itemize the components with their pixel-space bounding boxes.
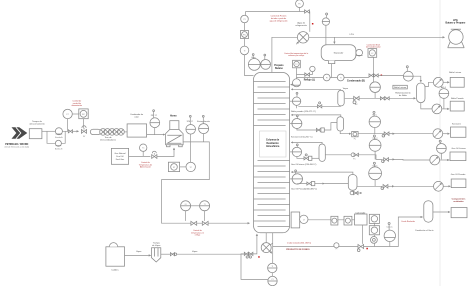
instrument square LC — [368, 49, 377, 58]
gauge liquido on column head — [261, 60, 271, 70]
wire instrument stack verticals — [245, 12, 254, 76]
condenser exchanger — [296, 32, 309, 45]
svg-text:Kerosene: Kerosene — [452, 123, 462, 126]
wire condensate from separator — [297, 64, 369, 78]
valve reflux — [305, 73, 310, 76]
gauge vaporizacion — [199, 124, 209, 134]
tank Tanque de almacenamiento — [29, 129, 42, 139]
instrument square bottom 2 — [344, 216, 352, 225]
tiny circle above gauge vapor — [252, 54, 254, 59]
tiny circle above separator TI — [326, 13, 328, 18]
svg-text:Horno: Horno — [170, 115, 177, 117]
valve row R2 right — [382, 132, 394, 137]
instrument square bottom 1 — [331, 216, 338, 225]
instrument square FIC — [79, 109, 88, 119]
stripper R2 vessel — [337, 117, 344, 131]
wire TT transfer stem — [204, 211, 206, 221]
wire steam line to column — [177, 253, 244, 255]
wire gauge 292 stem — [154, 128, 156, 135]
tiny circle above 370C — [189, 115, 191, 124]
svg-text:Fuel Oil: Fuel Oil — [116, 156, 124, 158]
furnace Horno — [166, 121, 184, 147]
wire R4 drum to valve — [297, 183, 307, 186]
valve transfer 1 — [191, 221, 197, 225]
gauge dome on splitter feed — [403, 71, 413, 81]
exchanger gasoil liviano — [430, 155, 440, 165]
tiny circle above R3 drum — [296, 144, 298, 147]
wire FT transfer stem — [185, 211, 187, 221]
box nafta pesada — [450, 101, 464, 111]
svg-text:PRODUCTO DE FONDO: PRODUCTO DE FONDO — [286, 249, 310, 251]
svg-text:de Vapor: de Vapor — [152, 244, 161, 247]
svg-text:calor: calor — [134, 116, 139, 119]
drum cabeza naphtha — [370, 82, 381, 93]
instrument circle LT bottom — [300, 215, 308, 223]
svg-text:columna por reflujo: columna por reflujo — [288, 54, 304, 57]
wire R3 drum to valve — [297, 157, 304, 159]
tiny circle above gasoil gauge — [439, 140, 441, 143]
valve row R4 feed — [307, 182, 315, 186]
tiny circle above splitter feed gauge — [406, 66, 408, 72]
wire drum to naphtha line — [374, 93, 376, 99]
svg-text:AR-1: AR-1 — [441, 86, 447, 89]
pumparound drum R3 — [292, 147, 301, 156]
svg-text:Gas Oil Pesado: Gas Oil Pesado — [451, 174, 466, 176]
valve row R4 right — [381, 185, 394, 190]
exchanger nafta liviana — [433, 77, 443, 87]
valve steam pair — [244, 252, 253, 258]
wire steam bypass loop — [241, 254, 268, 280]
wire cooling water drop — [309, 12, 311, 32]
box calculador — [355, 214, 368, 225]
svg-text:T150°C: T150°C — [372, 138, 379, 140]
instrument square stack right 2 — [369, 226, 379, 235]
red dot cooling — [312, 23, 314, 25]
wire cambiador to horno — [147, 134, 165, 136]
valve cluster condensate cross — [369, 74, 378, 77]
svg-text:Butano: Butano — [275, 67, 284, 70]
svg-text:Butano y Propano: Butano y Propano — [446, 22, 466, 25]
pump reflux — [293, 79, 301, 87]
drum before vacuum — [384, 230, 395, 241]
wire transfer line furnace to column feed — [162, 142, 250, 223]
wire top pressure line — [246, 11, 310, 13]
wire loop to pump B — [47, 131, 55, 143]
separator bottom nub — [329, 61, 335, 64]
wire column bottom left nozzle — [265, 233, 267, 243]
wire bottoms product line — [273, 246, 358, 248]
instrument circle TC fuel — [140, 144, 147, 151]
tiny circle above 292C — [153, 110, 155, 118]
valve row R3 right — [382, 158, 395, 163]
wire caldera to trampa — [125, 254, 151, 256]
tiny circle above gauge R3 — [373, 135, 375, 139]
instrument square TC reflux — [293, 60, 301, 68]
wire R2 drum to valve — [297, 129, 317, 131]
wire between bottoms instruments — [271, 273, 273, 277]
svg-text:agua de refrigeración: agua de refrigeración — [270, 20, 288, 23]
svg-text:Gas Oil liviano (250-300°C): Gas Oil liviano (250-300°C) — [291, 164, 317, 166]
svg-text:Cambiador de: Cambiador de — [130, 113, 144, 116]
svg-text:Vapor: Vapor — [251, 57, 256, 59]
tiny circle above R1 drum — [296, 92, 298, 97]
wire reflux controls — [297, 68, 313, 79]
wire LC to cluster — [373, 57, 375, 74]
wire vacuum to residuals box — [433, 211, 450, 213]
wire to kerosene box — [443, 133, 450, 135]
wire condenser to separator — [309, 37, 335, 43]
pumparound drum R2 — [292, 119, 302, 129]
heat exchanger train circles — [100, 129, 125, 136]
svg-text:Agua de: Agua de — [297, 21, 306, 24]
wire feed gauge to splitter top — [413, 76, 421, 82]
valve transfer 2 — [202, 221, 208, 225]
svg-text:Vapor: Vapor — [136, 250, 142, 253]
wire gauge R4 stem — [374, 180, 376, 187]
instrument circle stack right 3 — [371, 237, 378, 244]
wire fuel line — [129, 155, 151, 157]
exchanger nafta pesada — [432, 104, 442, 114]
exchanger gasoil pesado — [434, 181, 444, 191]
wire bottom instrument row — [308, 219, 355, 221]
wire naphtha line — [345, 97, 416, 99]
pump separator boot — [356, 49, 363, 56]
wire PC stem — [299, 8, 301, 12]
valve gasoil pesado draw — [350, 191, 362, 195]
instrument circle FT transfer — [181, 201, 191, 211]
tiny circle above R4 drum — [295, 170, 297, 174]
svg-text:Bomba A: Bomba A — [55, 136, 63, 139]
instrument stack circle PI — [241, 15, 249, 23]
instrument circle FT — [63, 109, 72, 118]
exchanger kerosene — [433, 129, 443, 139]
wire gauge R3 stem — [374, 151, 376, 159]
reboiler stub on column — [291, 212, 300, 228]
instrument circle condensate 2 — [337, 74, 344, 81]
wire column to pumparound R3 — [290, 151, 293, 153]
wire R4 feed continue — [324, 183, 348, 185]
boiler Caldera — [106, 243, 125, 267]
wire column to pumparound R2 — [290, 123, 292, 125]
svg-text:de toda a partir de: de toda a partir de — [271, 17, 286, 20]
wire splitter bottoms — [421, 103, 432, 109]
gauge vapor on column head — [248, 59, 260, 71]
valve steam 1 — [170, 253, 176, 256]
svg-text:almacenamiento: almacenamiento — [29, 122, 45, 125]
wire separator TI stem — [325, 25, 327, 44]
wire stripper4 return — [291, 172, 353, 174]
svg-text:T90°C: T90°C — [372, 114, 378, 116]
distillation column shell — [254, 73, 290, 233]
gauge 370C — [186, 125, 196, 135]
gas fuel box — [111, 148, 128, 164]
wire train to cambiador — [124, 131, 127, 133]
wire R4 feed to stripper — [315, 183, 325, 185]
wire R3 product line — [325, 155, 382, 160]
box gasoil liviano — [450, 152, 466, 161]
tiny circle above drum — [388, 223, 390, 231]
wire tank to pump A — [42, 130, 56, 132]
cambiador de calor box — [127, 124, 147, 137]
wire gauge 370 stem down — [190, 134, 192, 162]
svg-text:Control de Presión: Control de Presión — [271, 14, 287, 17]
valve row R3 feed — [304, 154, 312, 161]
stripper 1 nafta pesada — [338, 90, 344, 106]
wire R1 drum to valve — [298, 105, 341, 107]
wire steam riser into column — [253, 234, 257, 254]
svg-text:Nafta Liviana: Nafta Liviana — [449, 71, 462, 74]
svg-text:T300°C: T300°C — [372, 165, 379, 167]
svg-text:alimentación: alimentación — [71, 104, 82, 107]
gauge dome row R2 — [369, 116, 380, 127]
instrument circle on bottoms line — [334, 243, 339, 251]
valve feed — [68, 130, 72, 133]
box componentes residuales — [451, 208, 467, 218]
wire R3 feed to stripper — [312, 157, 319, 159]
tiny circle above gauge R2 — [373, 111, 375, 116]
gauge 292C — [150, 118, 160, 128]
svg-text:Extrapolación: Extrapolación — [197, 120, 210, 123]
column label box — [260, 131, 287, 157]
LPG sphere tank — [448, 29, 465, 48]
instrument stack square PIC — [241, 31, 249, 39]
svg-text:292 °C: 292 °C — [151, 115, 158, 117]
instrument stack circle TI — [240, 46, 249, 55]
svg-text:Alimentación: Alimentación — [140, 166, 151, 169]
stripper R3 vessel — [319, 144, 325, 161]
svg-text:Crudo Reducido: Crudo Reducido — [401, 220, 415, 223]
wire TC stem — [142, 151, 144, 156]
wire to gasoil pesado box — [443, 185, 450, 187]
svg-text:PETROLEO / CRUDO: PETROLEO / CRUDO — [5, 144, 28, 146]
control valve FV — [81, 126, 86, 134]
valve R1 — [317, 102, 321, 108]
box gasoil pesado — [451, 179, 466, 188]
instrument circle PC top — [296, 0, 304, 8]
wire splitter overhead — [425, 82, 433, 86]
svg-text:Vapor: Vapor — [343, 87, 349, 90]
svg-text:LPG: LPG — [350, 34, 355, 36]
wire R2 feed elbow into stripper — [324, 123, 337, 130]
wire gasoil gauge stem — [440, 153, 442, 159]
valve top pressure — [305, 10, 310, 13]
svg-text:refrigeración: refrigeración — [295, 24, 307, 27]
svg-text:Gas Natural: Gas Natural — [114, 152, 126, 155]
wire condensate to splitter feed — [379, 74, 404, 76]
wire stripper4 bottoms — [350, 190, 353, 193]
instrument circle bottoms 2 — [268, 276, 277, 285]
wire stripper R2 bottoms — [340, 131, 351, 134]
gauge dome gasoil liviano — [437, 144, 447, 154]
gauge AR-1 — [439, 89, 449, 99]
wire bottoms to vacuum — [364, 217, 423, 247]
gauge TI above separator — [322, 18, 329, 25]
instrument circle FI reflux — [310, 66, 315, 71]
box nafta liviana — [450, 77, 464, 87]
column trays — [254, 82, 290, 227]
wire FT-TT link — [191, 205, 200, 207]
wire to nafta liviana box — [443, 81, 449, 83]
svg-text:Reflujo (L): Reflujo (L) — [304, 79, 316, 81]
tiny circle above R2 drum — [296, 115, 298, 119]
boxed label nafta liviana — [393, 85, 407, 89]
heat exchanger train pill — [90, 129, 101, 134]
wire fuel valve to furnace — [157, 148, 174, 157]
wire trampa to valve — [161, 253, 170, 255]
wire gauge vaporizacion stem — [202, 134, 204, 142]
wire pumps to valve — [61, 131, 68, 143]
valve bottoms — [357, 245, 363, 252]
wire LPG line to sphere — [334, 36, 444, 38]
wire stack right verticals — [373, 223, 375, 246]
svg-text:Nafta pesada (120-175 °C): Nafta pesada (120-175 °C) — [291, 110, 316, 113]
wire gauge R2 stem — [374, 128, 376, 134]
wire R1 drum stem — [296, 105, 298, 108]
valve cluster naphtha 2 — [380, 97, 389, 100]
wire stripper2 return — [291, 115, 341, 118]
valve row R2 feed — [316, 128, 324, 132]
svg-text:Bomba B: Bomba B — [55, 148, 63, 150]
stripper R4 vessel — [348, 175, 357, 191]
wire FY to TC2 — [180, 166, 186, 168]
bottoms exchanger circle X — [261, 243, 272, 254]
page boundary faint line — [439, 0, 441, 286]
wire overhead vapor line — [272, 37, 298, 72]
wire R4 line to exchanger — [394, 185, 434, 187]
red dot bottoms — [366, 248, 368, 250]
pumparound drum R4 — [292, 174, 302, 184]
tiny circle above vaporizacion — [202, 115, 204, 123]
svg-text:Columna de: Columna de — [266, 140, 280, 142]
wire stripper1 return to column — [291, 88, 341, 90]
wire valve to FV with arrow — [73, 130, 79, 132]
svg-text:Nafta Liviana: Nafta Liviana — [394, 86, 407, 89]
svg-text:de Nafta: de Nafta — [399, 94, 408, 97]
valve circle R3 mid — [351, 153, 358, 161]
wire R2 product line — [358, 133, 433, 135]
svg-text:Componentes: Componentes — [452, 198, 467, 201]
svg-text:Destilación al Vacío: Destilación al Vacío — [415, 229, 434, 232]
instrument square FY — [168, 162, 179, 171]
wire to nafta pesada box — [442, 108, 449, 110]
svg-text:LPG: LPG — [453, 20, 458, 22]
instrument circle TT transfer — [200, 201, 210, 211]
instrument circle bottoms 1 — [268, 263, 277, 272]
wire R4 product line right — [357, 185, 382, 187]
tiny circle above gauge liquido — [264, 54, 266, 59]
wire FT stem — [67, 119, 69, 132]
wire drum stem — [389, 242, 391, 247]
naphtha splitter vessel — [417, 83, 425, 103]
wire column to pumparound R1 — [290, 100, 293, 102]
svg-text:Fuel Gas: Fuel Gas — [116, 159, 124, 161]
svg-text:Destilación: Destilación — [266, 142, 279, 145]
svg-text:Condensado (B): Condensado (B) — [347, 80, 365, 82]
svg-text:intercambiadores: intercambiadores — [100, 139, 116, 142]
svg-text:del Condensador: del Condensador — [366, 46, 381, 49]
pump Bomba B — [55, 140, 61, 146]
wire to gasoil liviano box — [440, 159, 450, 161]
svg-text:Propano: Propano — [274, 65, 284, 67]
wire stripper3 return — [291, 142, 322, 144]
gauge dome row R3 — [369, 139, 381, 151]
wire FIC to FV — [83, 119, 85, 128]
pumparound drum R1 — [292, 97, 300, 105]
svg-text:Gas Oil Pesado(300-380°C): Gas Oil Pesado(300-380°C) — [291, 188, 317, 190]
control valve fuel — [152, 151, 157, 158]
svg-text:Vapor: Vapor — [192, 250, 198, 253]
instrument circle condensate 1 — [323, 74, 330, 81]
svg-text:Separador: Separador — [334, 52, 344, 55]
tiny circle above gauge R4 — [373, 162, 375, 167]
red dot steam — [258, 256, 260, 258]
wire reflux into column — [291, 84, 293, 86]
box kerosene — [451, 127, 466, 137]
pump Bomba A — [55, 128, 62, 135]
wire column to pumparound R4 — [290, 178, 293, 180]
svg-text:Kerosene (150-250 °C): Kerosene (150-250 °C) — [291, 136, 313, 139]
vacuum column vessel — [424, 201, 433, 223]
valve naphtha with circle — [353, 96, 359, 106]
wire FT to FIC — [72, 113, 79, 115]
wire AR-1 stem — [443, 98, 445, 109]
steam trap Trampa de Vapor — [152, 248, 161, 262]
instrument circle TC2 — [186, 162, 195, 171]
instrument square R2 mid — [352, 132, 358, 141]
svg-text:el flujo: el flujo — [195, 235, 200, 237]
wire cluster down to drum — [373, 77, 375, 82]
svg-text:(Desde Venezuela u otro lado): (Desde Venezuela u otro lado) — [5, 146, 30, 149]
svg-text:Atmosférica: Atmosférica — [266, 145, 280, 148]
svg-text:Nafta Pesada: Nafta Pesada — [451, 97, 464, 100]
wire exchanger elbow — [271, 243, 273, 245]
separator vessel — [321, 45, 356, 61]
wire R3 line to exchanger — [395, 158, 430, 161]
wire column bottom right outlet — [272, 233, 274, 264]
svg-text:Gas Oil Liviano: Gas Oil Liviano — [452, 148, 467, 150]
svg-text:residuales: residuales — [453, 200, 464, 203]
wire calculador drop — [361, 225, 363, 244]
svg-text:Crudo reducido (350 -380°C): Crudo reducido (350 -380°C) — [287, 242, 312, 245]
svg-text:Cabeza: Cabeza — [386, 226, 392, 228]
gauge dome row R4 — [369, 167, 382, 180]
red dot condensate cluster — [381, 75, 383, 77]
feed arrow PETROLEO/CRUDO — [12, 127, 28, 139]
svg-text:Caldera: Caldera — [111, 268, 119, 271]
instrument square stack right 1 — [369, 214, 379, 223]
